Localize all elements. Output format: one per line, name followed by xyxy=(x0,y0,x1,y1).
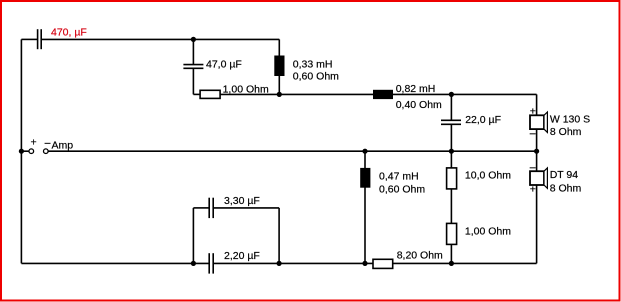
svg-text:–: – xyxy=(530,127,536,139)
wire 0,82mH to corner x=536 xyxy=(393,93,537,95)
value label 1,00 Ohm xyxy=(223,83,269,95)
svg-text:0,47 mH: 0,47 mH xyxy=(379,170,419,182)
value label 8,20 Ohm xyxy=(397,250,443,262)
wire top rail left segment xyxy=(21,38,37,40)
inductor 0,33 mH xyxy=(274,56,284,77)
wire 22µF branch lower vertical xyxy=(450,125,452,152)
wire 47µF branch upper vertical xyxy=(192,39,194,64)
wire DT94 branch lower vertical xyxy=(536,185,538,263)
value label 10,0 Ohm xyxy=(465,170,511,182)
value label 22,0 µF xyxy=(465,114,501,126)
svg-text:47,0 µF: 47,0 µF xyxy=(206,59,242,71)
wire to resistor 1,00 Ohm xyxy=(193,93,200,95)
value label 1,00 Ohm xyxy=(465,225,511,237)
capacitor 2,20 µF xyxy=(209,253,213,273)
wire 0,47mH branch upper vertical xyxy=(364,151,366,168)
wire mid rail xyxy=(48,150,536,152)
node junction bottom rail x=193 xyxy=(191,261,196,266)
wire 3,30µF loop right vertical xyxy=(278,208,280,264)
wire bottom rail right segment xyxy=(393,262,537,264)
svg-text:+: + xyxy=(530,183,536,195)
wire 10 Ohm branch upper vertical xyxy=(450,151,452,168)
svg-text:470, µF: 470, µF xyxy=(51,27,87,39)
terminal - Amp xyxy=(44,137,51,154)
terminal + Amp xyxy=(21,136,36,153)
wire top rail right segment xyxy=(42,38,279,40)
wire W130S branch upper vertical xyxy=(536,94,538,115)
wire 1,00 Ohm to bottom rail xyxy=(450,244,452,263)
node junction mid rail x=365 xyxy=(362,149,367,154)
node junction rail A x=451 xyxy=(449,92,454,97)
svg-text:22,0 µF: 22,0 µF xyxy=(465,114,501,126)
svg-text:8 Ohm: 8 Ohm xyxy=(550,126,582,138)
resistor 1,00 Ohm (lower branch) xyxy=(447,223,457,244)
speaker DT 94 xyxy=(530,168,547,188)
pin - W130S xyxy=(530,127,536,139)
inductor 0,47 mH xyxy=(360,168,370,188)
svg-text:0,40 Ohm: 0,40 Ohm xyxy=(396,99,442,111)
svg-text:0,60 Ohm: 0,60 Ohm xyxy=(293,70,339,82)
node junction bottom rail x=365 xyxy=(362,261,367,266)
resistor 10,0 Ohm xyxy=(447,168,457,189)
wire rail A to 0,82mH xyxy=(279,93,373,95)
value label 0,33 mH 0,60 Ohm xyxy=(293,59,339,83)
speaker W 130 S xyxy=(530,112,547,132)
wire 3,30µF loop top right segment xyxy=(214,207,279,209)
svg-text:0,82 mH: 0,82 mH xyxy=(396,83,436,95)
pin + W130S xyxy=(530,106,536,118)
node junction mid rail x=451 xyxy=(449,149,454,154)
node junction bottom rail x=279 xyxy=(277,261,282,266)
svg-text:+: + xyxy=(31,136,37,148)
wire 0,33mH branch upper vertical xyxy=(278,39,280,56)
capacitor 470 µF xyxy=(38,29,42,49)
node junction bottom rail x=451 xyxy=(449,261,454,266)
resistor 8,20 Ohm xyxy=(373,259,393,268)
wire 3,30µF loop left vertical xyxy=(192,208,194,264)
svg-text:1,00 Ohm: 1,00 Ohm xyxy=(465,225,511,237)
wire 0,47mH branch lower vertical xyxy=(364,188,366,264)
svg-text:2,20 µF: 2,20 µF xyxy=(224,250,260,262)
wire bottom rail mid segment xyxy=(214,262,373,264)
wire W130S branch lower vertical xyxy=(536,129,538,151)
wire 47µF branch lower vertical xyxy=(192,69,194,95)
value label 47,0 µF xyxy=(206,59,242,71)
svg-text:Amp: Amp xyxy=(52,140,74,152)
capacitor 3,30 µF xyxy=(209,198,213,218)
svg-text:8,20 Ohm: 8,20 Ohm xyxy=(397,250,443,262)
wire DT94 branch upper vertical xyxy=(536,151,538,171)
node junction left rail mid xyxy=(19,149,24,154)
wire 0,33mH branch lower vertical xyxy=(278,76,280,95)
wire bottom rail left segment xyxy=(21,262,208,264)
pin - DT94 xyxy=(530,161,536,173)
pin + DT94 xyxy=(530,183,536,195)
svg-text:3,30 µF: 3,30 µF xyxy=(224,195,260,207)
value label 0,82 mH 0,40 Ohm xyxy=(396,83,442,111)
wire left rail vertical xyxy=(20,39,22,263)
svg-text:W 130 S: W 130 S xyxy=(550,113,590,125)
value label 2,20 µF xyxy=(224,250,260,262)
svg-text:0,33 mH: 0,33 mH xyxy=(293,59,333,71)
label W 130 S 8 Ohm xyxy=(550,113,590,138)
capacitor 47,0 µF xyxy=(183,65,203,69)
wire 22µF branch upper vertical xyxy=(450,94,452,120)
value label 3,30 µF xyxy=(224,195,260,207)
node junction mid rail x=536 xyxy=(534,149,539,154)
label DT 94 8 Ohm xyxy=(550,169,582,195)
inductor 0,82 mH xyxy=(373,90,393,99)
value label 470, µF xyxy=(51,27,87,39)
wire between 10 Ohm and 1,00 Ohm xyxy=(450,189,452,224)
capacitor 22,0 µF xyxy=(441,120,461,124)
svg-text:–: – xyxy=(45,137,51,149)
svg-text:8 Ohm: 8 Ohm xyxy=(550,182,582,194)
node junction top rail x=193 xyxy=(191,37,196,42)
svg-text:DT 94: DT 94 xyxy=(550,169,579,181)
node junction rail A x=279 xyxy=(277,92,282,97)
wire 3,30µF loop top left segment xyxy=(193,207,208,209)
resistor 1,00 Ohm (top branch) xyxy=(200,90,220,98)
svg-text:10,0 Ohm: 10,0 Ohm xyxy=(465,170,511,182)
value label 0,47 mH 0,60 Ohm xyxy=(379,170,425,195)
svg-text:0,60 Ohm: 0,60 Ohm xyxy=(379,184,425,196)
wire resistor to node x=279 xyxy=(220,93,279,95)
label Amp xyxy=(52,140,74,152)
